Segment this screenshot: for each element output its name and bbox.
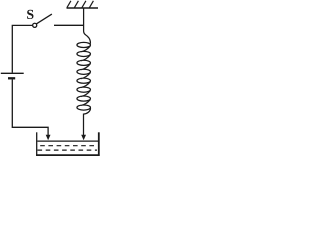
mercury trough: bottom [36,154,100,156]
electrode arrow (right) dipping into mercury [81,135,86,141]
mercury trough: right wall [98,132,100,156]
mercury surface line [37,140,98,142]
mercury shading dashes row 1 [40,145,97,147]
coil L1: suspended helical spring with top hook and lead down to right electrode [77,8,91,135]
ceiling support: hatch 1 [67,1,71,8]
battery B1: short thick plate [8,77,15,79]
ceiling support: rail [67,7,99,9]
ceiling support: hatch 4 [89,1,93,8]
ceiling support: hatch 2 [74,1,78,8]
ceiling support: hatch 3 [82,1,86,8]
wire: battery down, bottom run right, into left electrode stem [12,80,48,136]
wire: switch fixed side to suspension point on ceiling wire [54,24,84,26]
electrode arrow (left) dipping into mercury [46,135,51,141]
switch S [27,10,52,28]
mercury shading dashes row 2 [38,149,98,151]
mercury trough: left wall [36,132,38,156]
wire: top run and left vertical down to battery positive plate [12,25,32,72]
battery B1: long plate [1,72,24,74]
